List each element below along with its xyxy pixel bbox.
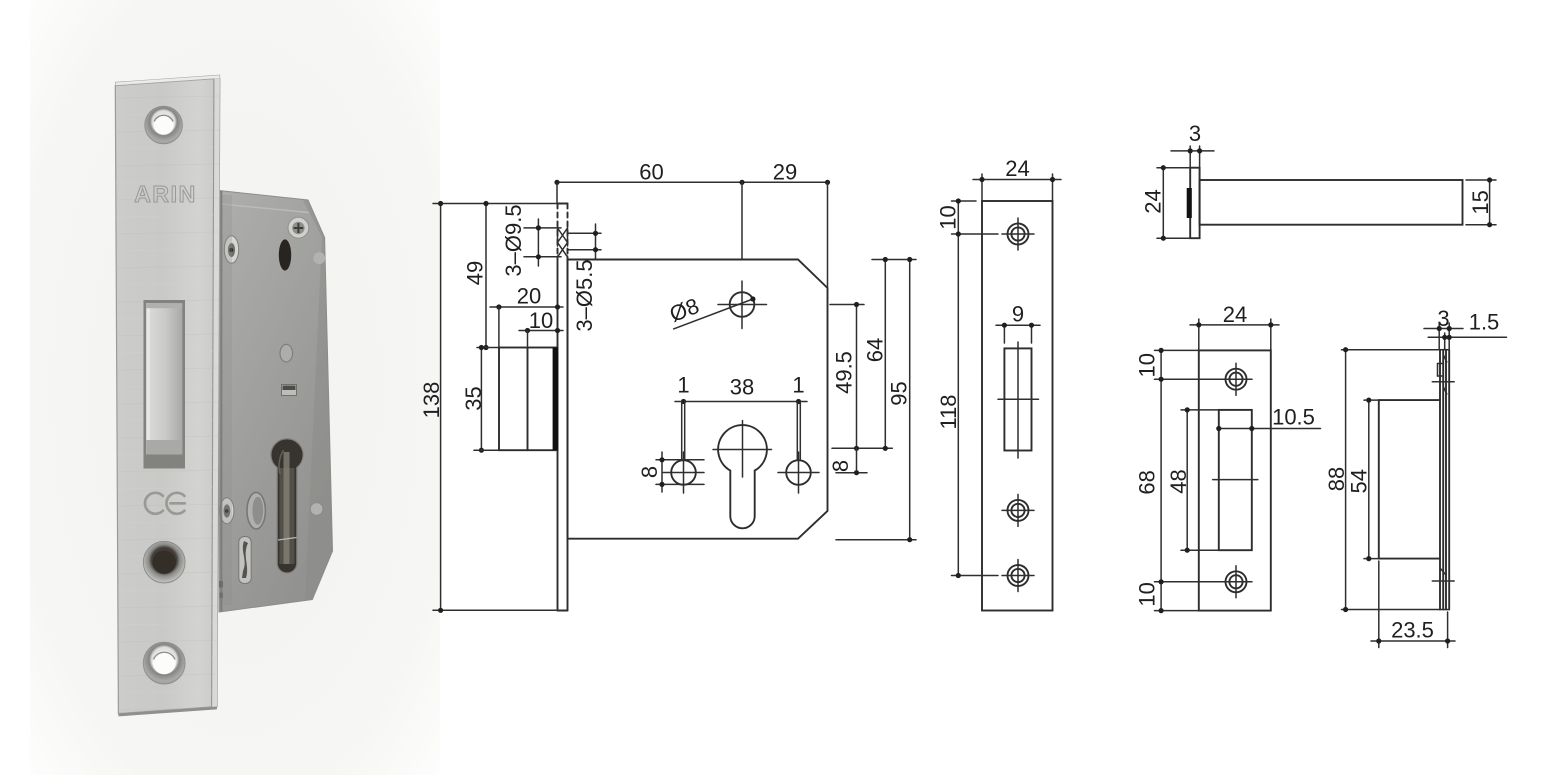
dim 3 (plate thickness): [1171, 121, 1214, 180]
photo: euro cylinder cutout in case: [271, 439, 303, 573]
dim 54: [1347, 398, 1372, 562]
photo: small ellipse hole mid case: [280, 344, 293, 362]
dimension 3-Ø9.5 (countersink): [501, 204, 561, 276]
photo: lower torx screw on case: [220, 498, 234, 524]
photo: lock case body: [219, 191, 333, 613]
dims 10 / 118 (left): [936, 198, 998, 578]
svg-text:10: 10: [1135, 353, 1160, 377]
svg-text:1: 1: [792, 373, 804, 398]
photo: dark hole on case: [279, 239, 291, 270]
svg-text:88: 88: [1324, 467, 1349, 491]
photo: torx screw on case: [224, 236, 238, 264]
svg-text:10: 10: [1135, 582, 1160, 606]
svg-text:3: 3: [1189, 121, 1201, 146]
bottom screw hole: [1002, 560, 1034, 592]
plate top edge line: [1342, 349, 1449, 351]
latch bolt protrusion (bold): [1187, 188, 1192, 218]
svg-text:9: 9: [1012, 302, 1024, 327]
latch bolt box: [499, 348, 558, 451]
dim 1.5: [1428, 310, 1506, 350]
svg-text:38: 38: [730, 375, 754, 400]
photo: spring slot bottom left of case: [239, 537, 251, 584]
top screw hole: [1002, 218, 1034, 250]
dims 10 / 68 / 10 (left): [1135, 348, 1223, 613]
dimension 38 with 1/1 offsets: [675, 373, 807, 460]
dim 88: [1324, 347, 1349, 612]
svg-text:15: 15: [1468, 190, 1493, 214]
photo: faceplate: [115, 75, 220, 717]
lock case outline with chamfered right corners: [568, 260, 828, 539]
svg-text:60: 60: [639, 160, 663, 185]
latch bolt face (bold): [553, 348, 558, 451]
svg-text:8: 8: [828, 460, 853, 472]
dimension 10 (latch depth): [519, 308, 563, 348]
faceplate edge: [1190, 168, 1199, 239]
faceplate countersink section hatch: [558, 228, 568, 257]
svg-text:49: 49: [462, 261, 487, 285]
dim 15 (bolt height): [1466, 177, 1496, 227]
svg-text:54: 54: [1347, 469, 1372, 493]
middle screw hole: [1002, 494, 1034, 526]
dim 23.5 (box depth): [1371, 561, 1455, 648]
photo: tick marks on plate edge: [220, 581, 223, 588]
svg-text:24: 24: [1005, 156, 1029, 181]
dim 10.5 (slot width leader): [1216, 405, 1320, 432]
latch bolt body: [1200, 180, 1463, 225]
dimension 8 (left hole dia): [637, 452, 704, 492]
strike plate outline: [1199, 350, 1271, 610]
right M5 fixing hole: [778, 452, 819, 493]
photo: bottom countersunk screw hole (white): [143, 642, 185, 684]
plate bottom edge line: [1342, 609, 1449, 611]
strike slot: [1219, 410, 1252, 550]
photo: rectangular slot on case: [282, 385, 297, 396]
left M5 fixing hole: [663, 452, 704, 493]
strike plate layers (thin): [1439, 350, 1441, 610]
photo: elongated hole mid-left of cylinder: [247, 492, 265, 529]
svg-text:3–Ø5.5: 3–Ø5.5: [572, 259, 597, 331]
dim 24 (plate height): [1141, 165, 1190, 241]
svg-text:95: 95: [887, 381, 912, 405]
svg-text:68: 68: [1135, 470, 1160, 494]
photo: CE engraving: [145, 493, 185, 514]
svg-text:29: 29: [773, 160, 797, 185]
faceplate edge view (strip): [558, 204, 568, 611]
dim 95: [909, 260, 911, 540]
svg-text:8: 8: [637, 466, 662, 478]
screw centerline ticks: [1432, 381, 1454, 383]
photo: latch bolt in faceplate recess: [144, 300, 186, 469]
bottom screw hole: [1220, 566, 1252, 598]
svg-text:48: 48: [1166, 469, 1191, 493]
svg-text:10: 10: [529, 308, 553, 333]
svg-text:138: 138: [419, 382, 444, 419]
dim 64: [884, 260, 886, 449]
svg-text:23.5: 23.5: [1391, 618, 1434, 643]
photo: phillips screw head on case: [288, 217, 309, 238]
svg-text:20: 20: [517, 284, 541, 309]
Ø8 leader and label: [666, 293, 755, 329]
dim 8 (cylinder to hole): [856, 448, 858, 472]
faceplate outline: [982, 201, 1053, 611]
follower hole Ø8: [718, 281, 767, 329]
svg-text:3–Ø9.5: 3–Ø9.5: [501, 204, 526, 276]
latch slot: [1004, 348, 1031, 450]
dim 24: [1190, 302, 1279, 350]
photo: middle fixing hole (dark): [143, 541, 185, 583]
dim 9 (slot width): [996, 302, 1040, 344]
dim 3 (top): [1424, 306, 1463, 350]
photo: seam shadow between plate and case: [220, 191, 222, 611]
dimension 49 (plate top to latch box): [462, 201, 499, 350]
svg-text:35: 35: [461, 386, 486, 410]
dust box: [1379, 400, 1440, 558]
photo: top countersunk screw hole (empty, white through-hole): [145, 106, 183, 144]
lock product photo background: [30, 0, 440, 775]
svg-text:3: 3: [1437, 306, 1449, 331]
photo: small plug circle on case: [313, 252, 325, 264]
photo: small plug circle right of cylinder: [310, 503, 323, 516]
svg-text:49.5: 49.5: [831, 351, 856, 394]
svg-text:118: 118: [936, 394, 961, 429]
dimension 138 (left): [419, 201, 560, 613]
dim 48 (slot height): [1166, 407, 1219, 553]
svg-text:10.5: 10.5: [1272, 405, 1315, 430]
svg-text:1.5: 1.5: [1469, 310, 1500, 335]
svg-text:10: 10: [936, 205, 961, 229]
lip bend detail: [1438, 355, 1447, 575]
dim 24 (plate width): [973, 156, 1061, 201]
dimension 3-Ø5.5 (screw holes): [568, 224, 602, 332]
svg-text:ARIN: ARIN: [134, 181, 197, 207]
dimension 20: [490, 284, 563, 348]
right-side dimensions 49.5 / 64 / 95 / 8: [828, 257, 916, 542]
dim 49.5: [856, 305, 858, 449]
svg-text:24: 24: [1141, 189, 1166, 213]
box top/bottom extension to 54 dim: [1364, 399, 1379, 401]
svg-text:64: 64: [863, 338, 888, 362]
svg-text:1: 1: [677, 373, 689, 398]
euro profile cylinder hole: [713, 421, 772, 529]
top screw hole: [1220, 363, 1252, 395]
svg-text:24: 24: [1223, 302, 1247, 327]
dimension 60 / 29 (top): [554, 160, 830, 289]
dimension 35 (latch box height): [461, 345, 499, 453]
